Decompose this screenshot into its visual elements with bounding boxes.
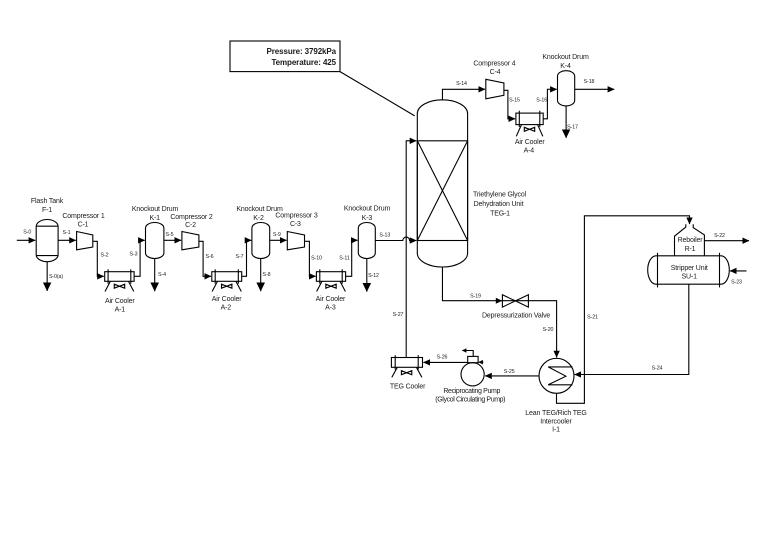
- svg-text:Reboiler: Reboiler: [678, 237, 704, 244]
- svg-text:S-5: S-5: [166, 232, 174, 238]
- svg-text:S-22: S-22: [714, 233, 725, 239]
- svg-text:Depressurization Valve: Depressurization Valve: [482, 313, 550, 320]
- svg-text:S-26: S-26: [437, 355, 448, 361]
- svg-text:Air Cooler: Air Cooler: [515, 139, 545, 146]
- svg-text:C-3: C-3: [290, 221, 301, 228]
- compressor C-1: [77, 232, 93, 250]
- svg-text:S-25: S-25: [504, 369, 515, 375]
- intercooler I-1: [539, 358, 574, 393]
- wire S-2: [93, 241, 104, 276]
- wire S-27: [406, 141, 416, 358]
- svg-text:S-20: S-20: [543, 327, 554, 333]
- svg-text:S-23: S-23: [731, 280, 742, 286]
- svg-text:Compressor 2: Compressor 2: [170, 214, 212, 221]
- knockout drum K-2: [252, 223, 270, 259]
- svg-text:S-4: S-4: [158, 272, 166, 278]
- wire S-25: [485, 375, 539, 377]
- wire S-5: [164, 239, 181, 241]
- svg-text:S-10: S-10: [311, 256, 322, 262]
- svg-text:Dehydration Unit: Dehydration Unit: [474, 201, 524, 208]
- svg-text:K-1: K-1: [149, 215, 160, 222]
- svg-text:S-15: S-15: [509, 98, 520, 104]
- wire S-8 drain: [260, 259, 262, 292]
- compressor C-4: [486, 79, 504, 99]
- svg-text:K-3: K-3: [362, 215, 373, 222]
- wire S-4 drain: [154, 259, 156, 292]
- svg-text:S-21: S-21: [587, 315, 598, 321]
- svg-text:C-2: C-2: [185, 222, 196, 229]
- svg-text:S-17: S-17: [567, 125, 578, 131]
- depressurization valve: [502, 295, 515, 307]
- wire S-9: [270, 239, 287, 241]
- wire S-17 drain: [565, 106, 567, 138]
- pump: [461, 363, 484, 386]
- svg-text:S-24: S-24: [652, 366, 663, 372]
- svg-text:Stripper Unit: Stripper Unit: [671, 265, 708, 272]
- svg-text:S-14: S-14: [456, 81, 467, 87]
- knockout drum K-4: [558, 71, 575, 106]
- air cooler A-4: [516, 113, 543, 125]
- svg-text:S-12: S-12: [368, 273, 379, 279]
- stripper unit SU-1: [648, 256, 730, 284]
- svg-text:K-2: K-2: [253, 215, 264, 222]
- compressor C-2: [182, 232, 199, 250]
- svg-text:TEG Cooler: TEG Cooler: [390, 383, 426, 390]
- svg-text:Knockout Drum: Knockout Drum: [344, 206, 391, 213]
- svg-text:A-1: A-1: [115, 307, 126, 314]
- svg-text:A-3: A-3: [325, 305, 336, 312]
- wire S-26: [424, 361, 468, 363]
- svg-text:S-27: S-27: [393, 312, 404, 318]
- svg-text:S-7: S-7: [236, 254, 244, 260]
- svg-text:I-1: I-1: [552, 427, 560, 434]
- svg-text:S-11: S-11: [339, 256, 350, 262]
- callout leader line: [340, 72, 415, 116]
- pump vent arrow: [462, 351, 473, 357]
- svg-text:Air Cooler: Air Cooler: [212, 296, 242, 303]
- wire S-11: [346, 240, 358, 276]
- svg-text:S-8: S-8: [263, 272, 271, 278]
- wire S-23: [730, 270, 747, 272]
- wire S-14: [442, 89, 485, 100]
- svg-text:C-1: C-1: [78, 222, 89, 229]
- svg-text:(Glycol Circulating Pump): (Glycol Circulating Pump): [435, 397, 505, 404]
- svg-text:S-9: S-9: [273, 232, 281, 238]
- svg-text:A-4: A-4: [524, 148, 535, 155]
- svg-text:Triethylene Glycol: Triethylene Glycol: [473, 192, 527, 199]
- knockout drum K-3: [358, 223, 375, 259]
- wire S-22: [704, 240, 749, 242]
- wire S-19 column bottom to valve to intercooler top S-20: [442, 267, 556, 358]
- svg-text:S-13: S-13: [379, 233, 390, 239]
- wire S-18: [575, 88, 615, 90]
- compressor C-3: [287, 232, 304, 250]
- wire S-6: [199, 241, 211, 276]
- svg-text:Flash Tank: Flash Tank: [31, 198, 64, 205]
- TEG column TEG-1: [417, 100, 467, 267]
- svg-text:S-6: S-6: [206, 254, 214, 260]
- svg-text:R-1: R-1: [685, 246, 696, 253]
- air cooler A-2: [212, 272, 242, 282]
- wire S-0(a) drain: [46, 262, 48, 291]
- svg-text:TEG-1: TEG-1: [490, 211, 510, 218]
- svg-text:Pressure: 3792kPa: Pressure: 3792kPa: [267, 47, 337, 56]
- wire S-15: [504, 90, 515, 119]
- air cooler A-3: [316, 272, 345, 282]
- callout box: [230, 41, 340, 72]
- svg-text:Knockout Drum: Knockout Drum: [132, 206, 179, 213]
- svg-text:S-19: S-19: [470, 294, 481, 300]
- wire S-10: [305, 241, 316, 276]
- wire S-16: [543, 89, 557, 119]
- svg-text:Lean TEG/Rich TEG: Lean TEG/Rich TEG: [525, 410, 586, 417]
- svg-text:Compressor 3: Compressor 3: [275, 213, 317, 220]
- svg-text:Air Cooler: Air Cooler: [105, 298, 135, 305]
- wire S-3: [134, 240, 145, 276]
- knockout drum K-1: [146, 223, 164, 259]
- reboiler R-1: [675, 224, 705, 255]
- wire S-24 stripper bottom to intercooler: [575, 284, 689, 374]
- svg-text:Intercooler: Intercooler: [540, 418, 572, 425]
- svg-text:Knockout Drum: Knockout Drum: [542, 54, 589, 61]
- svg-text:A-2: A-2: [221, 305, 232, 312]
- svg-text:S-1: S-1: [63, 230, 71, 236]
- svg-text:S-2: S-2: [101, 252, 109, 258]
- svg-text:K-4: K-4: [560, 63, 571, 70]
- svg-text:Reciprocating Pump: Reciprocating Pump: [443, 388, 500, 395]
- TEG cooler: [391, 358, 422, 368]
- column packing: [417, 141, 467, 241]
- svg-text:SU-1: SU-1: [682, 274, 698, 281]
- svg-text:S-0(a): S-0(a): [49, 274, 63, 280]
- svg-text:Temperature: 425: Temperature: 425: [271, 58, 336, 67]
- svg-text:Compressor 4: Compressor 4: [473, 61, 515, 68]
- svg-text:S-18: S-18: [584, 79, 595, 85]
- pump stub arrow: [479, 361, 484, 363]
- svg-text:S-0: S-0: [23, 229, 31, 235]
- svg-text:S-16: S-16: [536, 98, 547, 104]
- wire S-1: [58, 239, 76, 241]
- svg-text:C-4: C-4: [490, 69, 501, 76]
- wire S-13 with hop: [375, 237, 416, 240]
- wire intercooler bottom loop S-21 to reboiler: [557, 216, 690, 403]
- air cooler A-1: [105, 272, 134, 282]
- svg-text:Air Cooler: Air Cooler: [316, 296, 346, 303]
- svg-text:S-3: S-3: [130, 252, 138, 258]
- wire S-7: [242, 240, 252, 276]
- wire S-12 drain: [366, 259, 368, 292]
- wire S-0: [17, 239, 35, 241]
- svg-text:F-1: F-1: [42, 207, 52, 214]
- flash tank F-1: [36, 220, 58, 262]
- svg-text:Compressor 1: Compressor 1: [62, 213, 104, 220]
